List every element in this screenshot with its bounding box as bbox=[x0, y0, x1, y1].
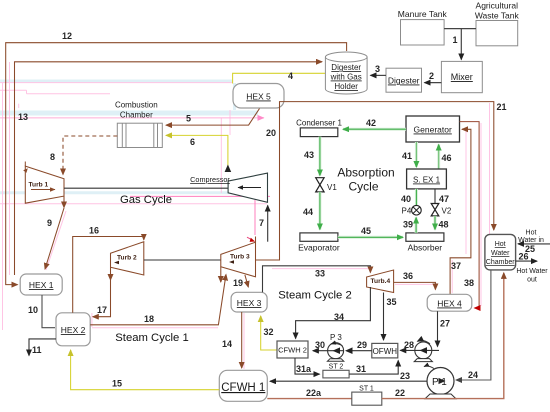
svg-text:Agricultural: Agricultural bbox=[476, 1, 519, 11]
svg-text:14: 14 bbox=[222, 339, 232, 349]
wire stream 22a (CFWH1 - ST1) bbox=[267, 398, 352, 400]
pump P2 bbox=[414, 340, 432, 361]
svg-text:Hot Water: Hot Water bbox=[516, 268, 548, 275]
svg-text:HEX 2: HEX 2 bbox=[61, 325, 86, 335]
svg-text:27: 27 bbox=[440, 319, 450, 329]
svg-text:37: 37 bbox=[451, 261, 461, 271]
svg-text:34: 34 bbox=[334, 312, 344, 322]
red arrow into Turb3 top bbox=[247, 237, 252, 239]
wire stream 16 (HEX2 - Turb2) bbox=[73, 237, 144, 313]
svg-text:Combustion: Combustion bbox=[115, 101, 158, 110]
wire stream 13 (HEX1 top - left edge - cylinder left) bbox=[15, 62, 323, 275]
compressor bbox=[190, 173, 267, 202]
manure tank bbox=[398, 9, 448, 45]
svg-text:42: 42 bbox=[366, 118, 376, 128]
absorber bbox=[406, 233, 444, 253]
black arrow at compressor outlet of stream 6 bbox=[225, 165, 232, 173]
svg-text:38: 38 bbox=[464, 278, 474, 288]
svg-text:16: 16 bbox=[89, 226, 99, 236]
wire stream 27 (HEX4 - P2) bbox=[437, 311, 439, 346]
svg-text:ST 2: ST 2 bbox=[329, 364, 344, 371]
wire stream 37 (HEX4 - generator) bbox=[450, 129, 471, 294]
svg-text:31a: 31a bbox=[296, 364, 312, 374]
wire stream 4 (yellow HEX5 - cylinder) bbox=[233, 73, 325, 83]
svg-text:7: 7 bbox=[259, 218, 264, 228]
wire stream 47 (S.EX1 - V2) bbox=[434, 189, 436, 204]
svg-text:V2: V2 bbox=[442, 207, 452, 216]
svg-text:Generator: Generator bbox=[414, 125, 452, 135]
svg-text:12: 12 bbox=[62, 31, 72, 41]
svg-text:Turb 2: Turb 2 bbox=[117, 255, 137, 262]
svg-text:Turb.4: Turb.4 bbox=[371, 278, 391, 285]
svg-text:Condenser 1: Condenser 1 bbox=[296, 119, 342, 128]
wire stream 23 (P1 - CFWH1) bbox=[270, 380, 427, 382]
svg-text:HEX 5: HEX 5 bbox=[246, 92, 271, 102]
svg-text:1: 1 bbox=[453, 35, 458, 45]
wire stream 39 (absorber - P4) bbox=[415, 218, 418, 233]
svg-text:22: 22 bbox=[395, 388, 405, 398]
svg-text:P4: P4 bbox=[402, 207, 412, 216]
wire stream 7 (air intake) bbox=[267, 206, 269, 242]
wire stream 19 (Turb3 - HEX3) bbox=[245, 275, 248, 287]
wire stream 25 (hot water in) bbox=[518, 243, 550, 245]
wire tanks junction bbox=[444, 28, 476, 30]
wire stream 18 (HEX2 - Turb3) bbox=[90, 275, 226, 325]
svg-text:Absorber: Absorber bbox=[408, 243, 443, 253]
wire stream 34 (Turb4 - CFWH2) bbox=[296, 287, 371, 339]
wire stream 24 (hot water chamber - P1) bbox=[456, 270, 491, 380]
wire stream 2 bbox=[425, 82, 442, 84]
svg-text:44: 44 bbox=[303, 207, 313, 217]
svg-text:CFWH 1: CFWH 1 bbox=[221, 382, 265, 394]
svg-text:39: 39 bbox=[403, 220, 413, 230]
svg-text:Digester: Digester bbox=[331, 63, 361, 72]
svg-text:HEX 1: HEX 1 bbox=[29, 280, 54, 290]
svg-text:out: out bbox=[527, 277, 537, 284]
wire stream 1 into mixer bbox=[460, 29, 462, 60]
svg-text:28: 28 bbox=[404, 340, 414, 350]
turbine Turb 2 bbox=[111, 242, 144, 275]
wire stream 28 (P2 - OFWH) bbox=[400, 349, 439, 351]
turbine Turb 1 bbox=[23, 162, 64, 204]
svg-text:22a: 22a bbox=[306, 388, 322, 398]
wire stream 45 (evaporator - absorber) bbox=[338, 236, 403, 239]
svg-text:Chamber: Chamber bbox=[120, 111, 153, 120]
svg-text:Gas Cycle: Gas Cycle bbox=[120, 194, 172, 206]
wire stream 41 (generator - S.EX1) bbox=[415, 142, 418, 167]
wire stream 31a (CFWH2 - ST2) bbox=[295, 358, 320, 374]
wire stream 26 (hot water out) bbox=[516, 260, 537, 262]
svg-text:31: 31 bbox=[356, 364, 366, 374]
svg-text:Water in: Water in bbox=[518, 237, 544, 244]
wire stream 33 (HEX3 - Turb4) bbox=[263, 266, 371, 293]
wire stream 14 (HEX3 - CFWH1) bbox=[241, 312, 243, 368]
svg-text:6: 6 bbox=[190, 137, 195, 147]
wire stream 38 (generator - HEX4) bbox=[460, 122, 480, 308]
wire stream 36 (Turb4 - HEX4) bbox=[394, 282, 436, 289]
svg-text:Evaporator: Evaporator bbox=[298, 243, 340, 253]
svg-text:13: 13 bbox=[18, 112, 28, 122]
wire stream 44 (V1 - evaporator) bbox=[318, 192, 321, 230]
svg-text:29: 29 bbox=[357, 340, 367, 350]
svg-text:8: 8 bbox=[50, 152, 55, 162]
wire stream 12 (cylinder top - left edge - HEX1) bbox=[6, 43, 347, 285]
svg-text:32: 32 bbox=[264, 327, 274, 337]
svg-text:10: 10 bbox=[28, 305, 38, 315]
svg-text:30: 30 bbox=[315, 340, 325, 350]
wire stream 3 bbox=[371, 74, 387, 76]
svg-text:41: 41 bbox=[402, 151, 412, 161]
svg-text:Chamber: Chamber bbox=[486, 259, 515, 266]
HEX 5 bbox=[233, 84, 284, 109]
svg-text:S. EX 1: S. EX 1 bbox=[413, 176, 441, 185]
svg-text:Turb 1: Turb 1 bbox=[29, 182, 49, 189]
agricultural waste tank bbox=[475, 1, 520, 46]
pump P4 bbox=[402, 205, 422, 215]
svg-text:Steam Cycle 2: Steam Cycle 2 bbox=[278, 290, 351, 302]
wire stream 6 (yellow compressor - combustion chamber) bbox=[166, 135, 228, 172]
svg-text:Mixer: Mixer bbox=[451, 72, 473, 82]
wire stream 15 (yellow CFWH1 - HEX2) bbox=[71, 350, 220, 390]
svg-text:Hot: Hot bbox=[526, 230, 537, 237]
svg-text:46: 46 bbox=[442, 153, 452, 163]
wire stream 17 (Turb2 - HEX2) bbox=[110, 267, 112, 280]
wire stream 11 (HEX2 out) bbox=[29, 339, 56, 356]
svg-text:Turb 3: Turb 3 bbox=[230, 254, 250, 261]
svg-text:4: 4 bbox=[288, 71, 293, 81]
wire stream 32 (yellow CFWH2 - HEX3) bbox=[261, 316, 277, 350]
wire steam shaft 1 bbox=[144, 259, 221, 261]
svg-text:23: 23 bbox=[400, 371, 410, 381]
CFWH 1 bbox=[219, 370, 267, 401]
turbine Turb 4 bbox=[367, 270, 394, 293]
wire stream 5 (HEX5 - combustion chamber) bbox=[166, 109, 260, 126]
svg-text:17: 17 bbox=[97, 305, 107, 315]
hot water chamber bbox=[485, 234, 516, 270]
combustion chamber bbox=[115, 101, 162, 148]
svg-text:45: 45 bbox=[361, 226, 371, 236]
svg-text:HEX 4: HEX 4 bbox=[437, 299, 462, 309]
svg-text:47: 47 bbox=[439, 194, 449, 204]
svg-text:Waste Tank: Waste Tank bbox=[475, 11, 520, 21]
svg-text:2: 2 bbox=[429, 71, 434, 81]
generator bbox=[406, 116, 460, 142]
svg-text:ST 1: ST 1 bbox=[359, 386, 374, 393]
svg-text:18: 18 bbox=[144, 314, 154, 324]
wire stream 9 (Turb1 - HEX1) bbox=[63, 196, 65, 207]
condenser 1 bbox=[296, 119, 342, 137]
svg-text:Absorption: Absorption bbox=[337, 166, 394, 180]
wire stream 31 (ST2 - OFWH) bbox=[349, 361, 398, 375]
wire stream 8 (dashed combustion chamber - Turb1) bbox=[63, 136, 117, 175]
svg-text:9: 9 bbox=[47, 218, 52, 228]
OFWH bbox=[372, 343, 398, 358]
wire stream 40 (P4 - S.EX1) bbox=[415, 189, 418, 205]
svg-text:Holder: Holder bbox=[334, 82, 358, 91]
HEX 1 bbox=[20, 274, 62, 295]
steam trap ST 2 bbox=[323, 364, 349, 378]
svg-text:5: 5 bbox=[186, 114, 191, 124]
CFWH 2 bbox=[277, 341, 308, 358]
svg-text:OFWH: OFWH bbox=[373, 347, 398, 356]
HEX 4 bbox=[427, 294, 472, 311]
wire stream 10 (HEX1 - HEX2) bbox=[42, 295, 55, 328]
wire stream 29 (OFWH - P3) bbox=[348, 350, 372, 352]
evaporator bbox=[298, 233, 340, 253]
svg-text:11: 11 bbox=[32, 345, 42, 355]
svg-text:24: 24 bbox=[468, 370, 478, 380]
wire stream 42 (generator - condenser) bbox=[405, 128, 407, 130]
svg-text:CFWH 2: CFWH 2 bbox=[278, 346, 307, 355]
svg-text:19: 19 bbox=[233, 278, 243, 288]
svg-text:3: 3 bbox=[375, 64, 380, 74]
svg-text:20: 20 bbox=[266, 128, 276, 138]
svg-text:26: 26 bbox=[519, 252, 529, 262]
svg-text:Water: Water bbox=[491, 250, 510, 257]
svg-text:15: 15 bbox=[112, 379, 122, 389]
svg-text:48: 48 bbox=[439, 220, 449, 230]
pump P 1 bbox=[424, 366, 456, 399]
wire stream 35 (Turb4 - OFWH) bbox=[383, 293, 385, 341]
pump P3 bbox=[313, 333, 344, 361]
svg-text:33: 33 bbox=[315, 269, 325, 279]
svg-text:Manure Tank: Manure Tank bbox=[398, 9, 448, 19]
wire stream 48 (V2 - absorber) bbox=[434, 216, 437, 230]
svg-text:Steam Cycle 1: Steam Cycle 1 bbox=[115, 332, 188, 344]
solution heat exchanger S.EX 1 bbox=[407, 169, 447, 189]
svg-text:Hot: Hot bbox=[495, 241, 506, 248]
digester box bbox=[386, 68, 422, 92]
svg-text:Digester: Digester bbox=[388, 76, 420, 86]
svg-text:40: 40 bbox=[401, 194, 411, 204]
wire stream 46 (S.EX1 - generator) bbox=[437, 145, 440, 170]
valve V2 bbox=[431, 204, 452, 216]
valve V1 bbox=[316, 178, 338, 192]
digester with gas holder (cylinder) bbox=[325, 52, 367, 94]
wire gas cycle shaft bbox=[64, 187, 228, 189]
wire stream 20-21 (Turb3 - HEX5 corner - hot water chamber) bbox=[256, 102, 494, 260]
wire stream 43 (condenser - V1) bbox=[318, 137, 321, 176]
svg-text:Cycle: Cycle bbox=[348, 180, 378, 194]
svg-text:36: 36 bbox=[403, 271, 413, 281]
svg-text:21: 21 bbox=[497, 102, 507, 112]
svg-text:HEX 3: HEX 3 bbox=[237, 298, 262, 308]
svg-text:with Gas: with Gas bbox=[330, 73, 362, 82]
steam trap ST 1 bbox=[352, 386, 382, 406]
svg-text:35: 35 bbox=[387, 297, 397, 307]
decorative pale lines omitted from labeling bbox=[0, 81, 262, 193]
mixer bbox=[441, 61, 482, 92]
HEX 2 bbox=[56, 313, 90, 346]
svg-text:V1: V1 bbox=[327, 183, 337, 192]
wire stream 22 (ST1 - hot water chamber) bbox=[382, 273, 504, 399]
svg-text:Compressor: Compressor bbox=[190, 175, 230, 184]
turbine Turb 3 bbox=[221, 237, 256, 283]
HEX 3 bbox=[231, 292, 267, 312]
svg-text:P 3: P 3 bbox=[330, 333, 342, 342]
svg-text:43: 43 bbox=[304, 150, 314, 160]
